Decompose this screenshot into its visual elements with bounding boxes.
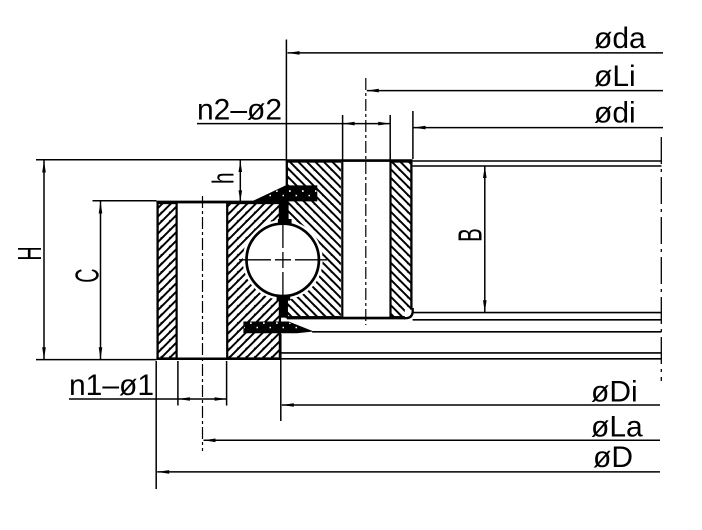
inner ring bottom face line bbox=[287, 317, 406, 319]
C top extension line bbox=[93, 200, 157, 202]
inner ring bottom-right chamfer bbox=[405, 310, 415, 320]
dimension B bbox=[484, 166, 486, 312]
svg-text:H: H bbox=[11, 246, 49, 260]
svg-text:øda: øda bbox=[594, 22, 646, 55]
inner hole centerline / øLi extension bbox=[365, 78, 367, 325]
ball bbox=[247, 224, 319, 296]
bottom seal (stippled wedge) bbox=[244, 322, 312, 333]
outer hole centerline / øLa extension bbox=[202, 196, 204, 451]
dimension n1-ø1 bbox=[177, 361, 179, 406]
dimension øLi bbox=[367, 90, 663, 92]
H top extension line bbox=[36, 159, 286, 161]
inner ring top face line bbox=[286, 159, 413, 161]
inner ring section (right, hatched) bbox=[287, 162, 412, 318]
dimension ødi bbox=[412, 111, 414, 159]
svg-text:ødi: ødi bbox=[594, 97, 636, 130]
seal lip bar below ball bbox=[277, 296, 291, 317]
dimension øLa bbox=[204, 439, 661, 441]
dimension C bbox=[100, 202, 102, 360]
dimension h bbox=[239, 161, 241, 202]
top seal (stippled wedge) bbox=[254, 186, 317, 201]
svg-text:øLa: øLa bbox=[591, 411, 643, 444]
bore band top lines bbox=[413, 160, 662, 162]
n1 hole wall lines bbox=[176, 203, 178, 358]
ball centerline vertical bbox=[282, 214, 284, 306]
n2 hole wall lines bbox=[341, 162, 343, 318]
svg-text:n2–ø2: n2–ø2 bbox=[197, 94, 282, 127]
svg-text:øLi: øLi bbox=[594, 60, 636, 93]
svg-text:h: h bbox=[206, 172, 241, 184]
ball centerline horizontal bbox=[239, 259, 327, 261]
raceway clearance bbox=[243, 220, 323, 300]
svg-text:B: B bbox=[451, 228, 488, 242]
svg-text:øDi: øDi bbox=[591, 376, 638, 409]
dimension øda bbox=[285, 40, 287, 161]
H C bottom extension line bbox=[36, 359, 156, 361]
outer ring top face line bbox=[156, 201, 281, 203]
bolt hole n2 in inner ring bbox=[341, 162, 390, 317]
dimension n2-ø2 bbox=[342, 115, 344, 160]
bore band bottom lines bbox=[413, 312, 662, 314]
seal gap line bbox=[312, 331, 661, 333]
seal lip bar above ball bbox=[278, 200, 292, 224]
svg-text:n1–ø1: n1–ø1 bbox=[69, 369, 154, 402]
dimension øDi bbox=[280, 334, 282, 421]
bolt hole n1 in outer ring bbox=[178, 203, 228, 358]
outer ring bottom face line bbox=[156, 358, 281, 361]
outer ring section (left, hatched) bbox=[158, 203, 280, 359]
outer ring bottom band lines bbox=[281, 352, 661, 354]
svg-text:øD: øD bbox=[593, 441, 633, 474]
dimension øD bbox=[155, 361, 157, 489]
dimension H bbox=[43, 161, 45, 360]
axis of rotation centerline bbox=[660, 137, 662, 381]
svg-text:C: C bbox=[68, 268, 106, 282]
